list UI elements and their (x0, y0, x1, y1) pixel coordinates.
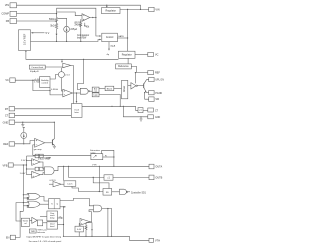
wire VC pin to C2 (15, 79, 39, 81)
svg-text:Controller SD1: Controller SD1 (131, 191, 147, 194)
box CT cap (138, 108, 143, 113)
svg-text:VTH: VTH (92, 165, 97, 167)
svg-text:GND: GND (3, 121, 9, 124)
block A regulator left (19, 30, 31, 51)
wire TC out up to GB (89, 210, 94, 222)
gate GC (120, 189, 127, 194)
wire FF top path to GB (60, 198, 94, 205)
wire T1 top feed arrow (61, 59, 63, 62)
svg-text:5kΩ: 5kΩ (50, 26, 54, 28)
pin CT (9, 113, 15, 117)
wire circle top tap (58, 18, 67, 26)
wire T2 out (72, 92, 80, 94)
box BX2 (103, 189, 112, 196)
arrows right of TB3 (58, 217, 63, 219)
wire down to G2 gate (77, 59, 83, 89)
svg-text:-4µ: -4µ (106, 54, 110, 56)
wire logic1 to box3 (99, 87, 105, 89)
inverter bubbles OG inputs (27, 197, 28, 198)
pin CT right (148, 108, 154, 112)
wire CT to pin (143, 109, 148, 111)
svg-text:Q: Q (57, 204, 59, 206)
svg-text:2400µ: 2400µ (75, 25, 82, 27)
wire EA output (90, 18, 101, 37)
wire C1 to T1 (45, 66, 63, 68)
box B2 control (102, 33, 118, 42)
wire bus branch to BT (16, 203, 23, 221)
svg-text:Latch: Latch (67, 183, 73, 186)
pin VIN right (149, 7, 154, 11)
or gate OG1 (28, 193, 41, 199)
pin VC right (148, 52, 154, 56)
stubs bus to gates (23, 194, 28, 196)
pin P1 (left top) (10, 3, 17, 8)
svg-text:0.3V D: 0.3V D (50, 180, 57, 182)
svg-text:Reference: Reference (118, 65, 129, 68)
svg-text:RT: RT (5, 108, 9, 111)
svg-text:1.04V: 1.04V (20, 173, 26, 175)
box TB3a (47, 211, 58, 221)
pin GND right (148, 115, 154, 119)
wire P3 (17, 20, 57, 22)
svg-text:VIN: VIN (155, 9, 159, 12)
svg-text:lator: lator (74, 111, 79, 114)
gate GB (94, 205, 102, 212)
pin E2 right (149, 91, 154, 95)
wire feedback top to EA output (57, 8, 96, 17)
box oscillator (71, 104, 82, 118)
svg-text:40µA µΩ: 40µA µΩ (30, 70, 39, 73)
svg-text:GATE: GATE (118, 35, 124, 38)
wire resistor down to L1 (80, 28, 82, 41)
wire GA out to pin A (54, 166, 149, 170)
wire emitter to SW pin (145, 93, 149, 100)
gate G2 (80, 88, 88, 94)
wire CS1 bottom (66, 32, 68, 41)
svg-text:TMR: TMR (31, 231, 36, 233)
bottom wire to VTH pin (79, 232, 149, 240)
wire B2 out to vertical (117, 37, 127, 39)
ground symbol Q2 (53, 146, 56, 148)
pin P3 FB (10, 19, 17, 24)
wire reference to REF pin (131, 66, 148, 72)
vertical join right (63, 207, 65, 237)
wire regulator to VIN pin (120, 8, 149, 10)
pin RT (9, 107, 15, 111)
comparator TC (80, 219, 90, 226)
svg-text:Digital MOSFET for gate driver: Digital MOSFET for gate driver timing (27, 236, 62, 239)
wire GND pin left (123, 106, 148, 117)
transistor Q2 (51, 140, 53, 146)
wire LB down jog to BX2 (72, 186, 103, 191)
svg-text:delay: delay (50, 218, 55, 220)
pin REF bottom-left (9, 142, 15, 146)
wire VC box to reference (127, 58, 129, 64)
op-amp T3 (35, 138, 45, 147)
saturation comp box (91, 154, 103, 160)
svg-text:≥1: ≥1 (107, 177, 110, 180)
wire BX2 to GC (112, 191, 120, 193)
wire C2 bottom to T2 low input (50, 88, 63, 95)
or gate OG2 (28, 201, 41, 207)
wire EN riser (15, 211, 23, 237)
Q1 collector (144, 80, 149, 85)
resistor R1 (55, 18, 57, 22)
resistor under EA plus input (80, 19, 82, 28)
svg-text:VC: VC (155, 54, 159, 57)
svg-text:COMP: COMP (2, 13, 10, 16)
svg-text:40k: 40k (85, 26, 90, 28)
Q1 emitter (144, 87, 149, 92)
pin P2 COMP (10, 11, 17, 16)
offset boxes CB (35, 167, 39, 171)
box RB (75, 226, 83, 232)
wire C2 to G circle (50, 75, 58, 79)
pin VFB (8, 163, 13, 167)
svg-text:OUTA: OUTA (155, 166, 162, 169)
wire logic2 to osc line (99, 94, 120, 106)
wire T2 out down to osc (76, 93, 78, 102)
svg-text:2.5V: 2.5V (21, 160, 26, 162)
svg-text:Regulator: Regulator (106, 10, 117, 13)
wire T1 out down to oscillator (71, 65, 74, 103)
FF out arrow (60, 206, 65, 208)
svg-text:0.6V: 0.6V (77, 229, 82, 231)
current source arrow down (56, 29, 58, 36)
svg-text:Blank: Blank (107, 88, 113, 90)
svg-text:comp: comp (90, 152, 96, 154)
offset boxes CA (35, 154, 39, 158)
svg-text:+1.2V: +1.2V (34, 79, 40, 81)
buffer TL (53, 182, 61, 187)
wire P1 to regulator area (17, 5, 141, 9)
svg-text:VTH: VTH (155, 240, 160, 243)
svg-text:Regulator: Regulator (122, 54, 132, 57)
pin E1 right (149, 77, 154, 81)
comparator CB (32, 171, 41, 178)
pin OUT A right (149, 164, 154, 169)
wire bus VFB down (22, 165, 24, 211)
svg-text:EN: EN (6, 237, 10, 240)
box BT thermal (21, 218, 29, 226)
gain circle G (58, 72, 64, 78)
wire P2 (17, 13, 57, 15)
svg-text:Control: Control (106, 36, 114, 39)
svg-text:PGND: PGND (155, 93, 162, 95)
comparator CA (32, 159, 41, 166)
svg-text:UPL GND: UPL GND (155, 80, 164, 82)
wire vertical to VC regulator (127, 9, 129, 51)
triangle TT (32, 217, 37, 223)
svg-text:500Ω: 500Ω (49, 19, 55, 21)
svg-text:control: control (42, 82, 49, 85)
pin SW right (149, 97, 154, 102)
svg-text:SD: SD (106, 192, 109, 194)
wire regulator top arrow (106, 5, 108, 6)
AND gate GA (44, 167, 54, 175)
wire into XB (69, 166, 104, 177)
wire offset box feeds (27, 155, 36, 157)
sat comp out (103, 156, 114, 158)
box reference (116, 64, 132, 69)
svg-text:CT: CT (155, 110, 159, 112)
svg-text:S: S (51, 204, 53, 206)
svg-text:low VSW: low VSW (77, 37, 87, 39)
box C2 stability (40, 77, 50, 88)
op-amp EA (82, 14, 90, 22)
svg-text:gm amp: gm amp (34, 149, 43, 151)
svg-text:5.1V REF: 5.1V REF (22, 33, 26, 45)
box current limit C1 (29, 65, 45, 69)
svg-text:VFB: VFB (3, 164, 8, 167)
svg-text:R: R (105, 156, 107, 158)
resistor RN (85, 223, 87, 237)
pin VC left (10, 78, 15, 83)
svg-text:SW: SW (155, 99, 160, 101)
wire osc out (82, 106, 138, 110)
wire T3 minus feedback (33, 145, 35, 155)
svg-text:CT: CT (5, 115, 9, 118)
wire box3 to driver (114, 87, 122, 89)
box TB3b (47, 222, 58, 229)
wires gates to FF (40, 196, 49, 201)
svg-text:Current limit: Current limit (31, 66, 43, 69)
box K0 (37, 220, 42, 226)
svg-text:band: band (50, 226, 54, 228)
wire VFB split to comparators (26, 156, 28, 175)
current arrow symbol (84, 23, 86, 27)
box driver tall (122, 80, 128, 98)
wire T3 out to Q2 base (45, 142, 52, 144)
wire vertical from OUTA to BX2 wire (98, 166, 100, 191)
wires into TB3 (43, 222, 47, 224)
wire COMP node vertical (56, 8, 58, 17)
pin VTH right (149, 238, 154, 242)
wire G top to T1 (60, 68, 62, 72)
box logic2 (92, 93, 99, 97)
pin OUT B right (149, 175, 154, 180)
box logic1 (92, 87, 99, 92)
wire from OUTA wire down to LB (63, 166, 65, 181)
node dots upper (56, 13, 57, 14)
buffer triangle driver (131, 83, 136, 89)
wire block A bottom with up-arrow (25, 50, 27, 52)
svg-text:COMP: COMP (45, 157, 52, 159)
node R1-R2 junction (56, 22, 58, 24)
wire GB out (102, 209, 112, 237)
wire VC box to pin (135, 54, 148, 56)
svg-text:0.3Ω A: 0.3Ω A (51, 88, 58, 91)
svg-text:FB: FB (6, 20, 10, 23)
wire down from VC wire to T2 input (33, 80, 50, 90)
current source I1 (21, 132, 27, 138)
svg-text:GND: GND (155, 117, 160, 119)
box blanking (105, 86, 114, 91)
box XB (104, 175, 113, 180)
wire to line L1 (56, 36, 58, 41)
box regulator VC (118, 51, 135, 58)
box K1 TMR (29, 229, 36, 233)
svg-text:ref: ref (24, 223, 27, 225)
wire L1 comparator line (31, 40, 101, 42)
regulator box top right (102, 8, 121, 14)
comparator T2 (63, 89, 73, 97)
svg-text:Logic: Logic (93, 95, 98, 97)
svg-text:REF: REF (3, 143, 8, 146)
transistor Q1 (143, 83, 145, 88)
svg-text:VC: VC (5, 79, 9, 82)
svg-text:40µA: 40µA (110, 45, 116, 48)
svg-text:REF: REF (155, 72, 160, 75)
ground symbol right (140, 117, 142, 119)
wire 5V arrow into block A (32, 32, 45, 34)
box latch LB (64, 181, 76, 187)
svg-text:Driver: Driver (123, 86, 126, 93)
pin EN bottom-left (10, 235, 15, 239)
current arrow RN (91, 226, 93, 231)
svg-text:CT: CT (139, 110, 143, 112)
wire vertical from OUTB wire (93, 177, 109, 188)
sat comp supply (101, 150, 103, 153)
svg-text:VIN: VIN (5, 4, 9, 7)
supply tick (23, 126, 25, 128)
svg-text:5 V: 5 V (46, 32, 50, 35)
wire B2 bottom arrow (108, 42, 110, 50)
wire to EA minus input (57, 12, 83, 16)
wire ref down to driver buffer (134, 73, 136, 84)
svg-text:behavior: behavior (37, 232, 45, 234)
svg-text:OUTB: OUTB (155, 177, 162, 180)
wire long to saturation comp (33, 154, 91, 156)
wire CA out to AND (40, 162, 44, 169)
wire XB to pin B (113, 176, 149, 178)
svg-text:For same 1.8 + 50% of mode pan: For same 1.8 + 50% of mode panel (29, 240, 62, 243)
pin GND (9, 120, 15, 124)
pin REF right (148, 71, 154, 75)
box FF (49, 199, 61, 209)
current source CS1 (64, 26, 70, 32)
svg-text:1.7kΩ: 1.7kΩ (34, 82, 40, 84)
resistor R2 (55, 24, 57, 29)
svg-text:225µA: 225µA (70, 28, 77, 31)
wire CB out to AND (40, 173, 44, 175)
ground symbol on GND wire (22, 122, 24, 124)
op-amp T1 (63, 63, 71, 67)
svg-text:x 6.3: x 6.3 (65, 75, 71, 77)
svg-text:Oscil: Oscil (74, 110, 79, 112)
wire G bottom to T2 (61, 78, 62, 91)
